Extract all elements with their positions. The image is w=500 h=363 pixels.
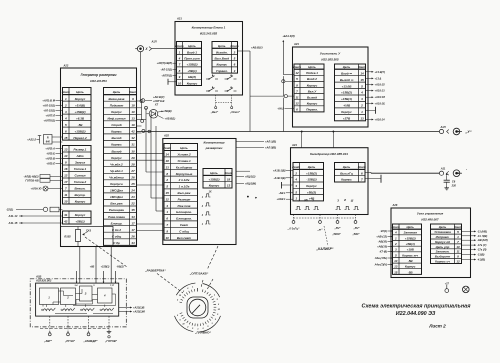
svg-text:„АВТ“: „АВТ“ — [43, 339, 53, 343]
A28 right connector table — [431, 224, 463, 264]
svg-text:Подсвет: Подсвет — [110, 103, 124, 107]
net A31-15 — [8, 221, 63, 225]
svg-text:-13(В): -13(В) — [477, 253, 484, 257]
coax connector calibrator output — [439, 167, 467, 177]
svg-text:Вкл.свет: Вкл.свет — [177, 236, 192, 240]
svg-text:5: 5 — [179, 320, 181, 322]
svg-text:+АР(У)1В(Л): +АР(У)1В(Л) — [157, 61, 173, 65]
net -АН:2 label — [277, 107, 294, 111]
svg-text:АВт: АВт — [75, 154, 83, 158]
svg-text:+АЛ-15(1): +АЛ-15(1) — [42, 103, 55, 107]
svg-text:Цепь: Цепь — [308, 65, 316, 69]
svg-text:3: 3 — [65, 110, 67, 114]
svg-text:+5В(1): +5В(1) — [75, 220, 84, 224]
A22 right connector table X2 — [104, 88, 138, 246]
svg-text:Вых.Вход: Вых.Вход — [214, 57, 229, 61]
svg-text:5: 5 — [183, 291, 185, 293]
svg-text:640: 640 — [46, 141, 51, 144]
svg-text:9: 9 — [457, 255, 459, 259]
svg-text:7: 7 — [166, 223, 168, 227]
svg-text:Выход: Выход — [307, 96, 317, 100]
svg-text:15: 15 — [166, 191, 170, 195]
svg-text:1: 1 — [166, 210, 168, 214]
svg-text:8: 8 — [179, 69, 181, 73]
net A31-13 — [8, 214, 63, 218]
svg-text:Корпус: Корпус — [75, 97, 86, 101]
title Схема электрическая принципиальная — [362, 304, 472, 329]
ground tick at A23 Корпус pin — [366, 107, 376, 114]
svg-text:„⊓ 1кГц“: „⊓ 1кГц“ — [287, 227, 300, 231]
svg-text:Вых.кГц: Вых.кГц — [340, 171, 353, 175]
svg-text:Запуск: Запуск — [75, 161, 86, 165]
svg-text:1: 1 — [48, 296, 50, 300]
A24 right connector table — [335, 163, 367, 183]
svg-text:26: 26 — [130, 176, 135, 180]
A24 left connector table — [292, 163, 323, 201]
svg-text:10: 10 — [131, 110, 135, 114]
svg-text:„m“: „m“ — [316, 228, 323, 232]
svg-text:+АЛ7:Л: +АЛ7:Л — [45, 113, 55, 117]
svg-text:Корпус: Корпус — [111, 143, 122, 147]
svg-text:А4в-(17Б): А4в-(17Б) — [374, 256, 387, 260]
svg-text:9: 9 — [132, 97, 134, 101]
label РАЗВЕРТКА — [144, 268, 166, 272]
net labels right of A28 — [462, 229, 488, 261]
svg-text:-5В: -5В — [408, 259, 414, 263]
svg-text:10: 10 — [166, 236, 170, 240]
svg-text:2 п.1/2к: 2 п.1/2к — [178, 178, 190, 182]
svg-text:11: 11 — [295, 96, 298, 100]
svg-text:14: 14 — [360, 71, 364, 75]
svg-text:Исправл.: Исправл. — [436, 235, 450, 239]
svg-text:9: 9 — [166, 229, 168, 233]
svg-text:Корпус: Корпус — [75, 213, 86, 217]
svg-text:44: 44 — [130, 241, 135, 245]
switch wafer contact arcs — [41, 305, 113, 311]
svg-text:10: 10 — [178, 81, 182, 85]
block A21 Коммутатор Блока 1 outline — [175, 17, 243, 96]
svg-text:15: 15 — [360, 78, 364, 82]
svg-text:+БА1.3(Л): +БА1.3(Л) — [282, 34, 294, 38]
svg-text:А1Л: А1Л — [150, 40, 156, 44]
svg-text:„ВЧ“: „ВЧ“ — [352, 227, 360, 230]
svg-text:Генератор развертки: Генератор развертки — [81, 73, 117, 77]
svg-text:+А22:2: +А22:2 — [27, 138, 36, 142]
svg-text:1: 1 — [457, 235, 459, 239]
A21 relay contacts K1 — [206, 74, 237, 79]
svg-text:-13. 5(В): -13. 5(В) — [477, 234, 487, 238]
svg-text:НВ(2): НВ(2) — [188, 75, 196, 79]
wire bundle A22-A25 — [137, 101, 165, 231]
svg-text:2: 2 — [64, 103, 67, 107]
svg-text:И22.2И.053: И22.2И.053 — [90, 79, 107, 83]
svg-text:29: 29 — [130, 156, 135, 160]
svg-text:Корпус: Корпус — [341, 110, 352, 114]
svg-text:Х: Х — [144, 47, 148, 51]
svg-text:17: 17 — [131, 221, 135, 225]
svg-text:Конт: Конт — [224, 171, 232, 175]
svg-text:3: 3 — [234, 69, 236, 73]
svg-text:+АВ(10): +АВ(10) — [377, 245, 387, 249]
svg-text:Корпус тч: Корпус тч — [402, 253, 418, 257]
svg-text:И22.044.090 ЭЗ: И22.044.090 ЭЗ — [396, 311, 436, 317]
svg-text:1: 1 — [202, 224, 204, 226]
svg-text:+15В(2): +15В(2) — [405, 236, 416, 240]
svg-text:-АЛ-15(1): -АЛ-15(1) — [160, 67, 172, 71]
svg-text:„КАЛИБР“: „КАЛИБР“ — [316, 247, 334, 251]
svg-text:R: R — [47, 137, 49, 140]
resistor R105 subcircuit — [61, 227, 114, 247]
svg-text:„РУЧН“: „РУЧН“ — [64, 339, 76, 343]
svg-text:Х7: Х7 — [154, 103, 159, 107]
svg-text:7,17: 7,17 — [110, 285, 115, 287]
net labels left of A24 — [273, 168, 293, 201]
svg-text:32: 32 — [131, 136, 135, 140]
svg-text:Подсв.1: Подсв.1 — [306, 71, 318, 75]
svg-text:Строб: Строб — [111, 123, 121, 127]
svg-text:+5.6(В): +5.6(В) — [75, 103, 85, 107]
svg-text:1МС/Дел: 1МС/Дел — [110, 189, 123, 193]
svg-text:-АВ(10): -АВ(10) — [378, 240, 387, 244]
svg-text:+СИГН.В: +СИГН.В — [153, 99, 164, 103]
svg-text:+А22(1)М: +А22(1)М — [133, 310, 145, 314]
svg-text:+13 Δ: +13 Δ — [375, 76, 382, 80]
svg-text:12: 12 — [295, 71, 299, 75]
svg-text:Внутр.: Внутр. — [75, 193, 86, 197]
net labels left of A21 — [157, 61, 177, 77]
svg-text:-V2(1): -V2(1) — [380, 229, 387, 233]
ground at switch output — [107, 330, 112, 338]
svg-text:+15В(2): +15В(2) — [75, 129, 86, 133]
A21 lower linkage to Вкл/Откл — [210, 95, 241, 114]
junction node wires left of A23 — [282, 76, 294, 131]
svg-text:развертки: развертки — [205, 146, 223, 150]
svg-text:Корпус: Корпус — [307, 102, 318, 106]
svg-text:Узел управления: Узел управления — [417, 212, 444, 216]
svg-text:Корпус: Корпус — [405, 265, 416, 269]
svg-text:2: 2 — [217, 304, 220, 306]
svg-text:1 п.1/2к: 1 п.1/2к — [179, 185, 190, 189]
svg-text:Инф.сигнал: Инф.сигнал — [108, 117, 126, 121]
svg-text:2: 2 — [201, 206, 204, 208]
svg-text:+27: +27 — [445, 282, 450, 285]
svg-text:1: 1 — [192, 286, 193, 288]
svg-text:4: 4 — [64, 116, 67, 120]
svg-text:Цепь: Цепь — [180, 146, 188, 150]
net labels +АЛ right of A25 top — [236, 140, 276, 150]
svg-text:Блокиров.: Блокиров. — [176, 210, 192, 214]
svg-text:Размерн: Размерн — [178, 197, 191, 201]
svg-text:Цепь: Цепь — [439, 225, 447, 229]
svg-text:+А19:1Б: +А19:1Б — [375, 101, 386, 105]
svg-text:2: 2 — [186, 288, 189, 290]
svg-text:2: 2 — [66, 296, 69, 300]
svg-text:А21: А21 — [176, 17, 182, 21]
svg-text:7: 7 — [296, 89, 298, 93]
svg-text:15: 15 — [64, 136, 68, 140]
svg-text:-17а (Л): -17а (Л) — [477, 247, 487, 251]
svg-text:25: 25 — [130, 182, 135, 186]
svg-text:13: 13 — [166, 165, 170, 169]
svg-text:И22.055.505: И22.055.505 — [321, 57, 339, 61]
svg-text:+15В(2): +15В(2) — [209, 177, 220, 181]
test point +27 — [445, 282, 450, 292]
svg-text:9: 9 — [296, 83, 298, 87]
svg-text:3: 3 — [361, 97, 363, 101]
svg-text:+А22(1)В: +А22(1)В — [133, 306, 144, 310]
svg-text:А11: А11 — [440, 167, 446, 171]
svg-text:-А1В:1(В): -А1В:1(В) — [273, 176, 285, 180]
svg-text:6: 6 — [361, 171, 363, 175]
svg-text:Установка: Установка — [434, 230, 451, 234]
svg-text:1: 1 — [295, 197, 297, 201]
svg-text:Выход: Выход — [111, 136, 121, 140]
svg-text:+АЛ:5(В): +АЛ:5(В) — [265, 146, 276, 150]
svg-text:„ЗАМЕДЛ“: „ЗАМЕДЛ“ — [82, 339, 98, 343]
svg-text:Корпус об: Корпус об — [435, 240, 450, 244]
svg-text:220: 220 — [451, 183, 457, 187]
power feeds into switch assembly — [76, 247, 116, 284]
switch wafer S1 — [40, 288, 59, 305]
svg-text:„Вкл“: „Вкл“ — [210, 110, 219, 114]
power feed labels — [75, 265, 124, 287]
svg-text:Корпусн: Корпусн — [110, 182, 123, 186]
svg-text:4: 4 — [394, 231, 397, 235]
svg-text:+КЦ/1(М): +КЦ/1(М) — [245, 181, 256, 185]
svg-text:И22.480.007: И22.480.007 — [421, 217, 439, 221]
svg-text:5: 5 — [234, 57, 236, 61]
A22 left connector table rows 41-42 — [63, 211, 92, 224]
svg-text:17: 17 — [64, 180, 68, 184]
vertical feeds into calibrator — [301, 131, 334, 148]
svg-text:Цепь упр: Цепь упр — [436, 245, 450, 249]
switch internal routing wires — [43, 289, 116, 314]
svg-text:10: 10 — [64, 200, 68, 204]
net labels right of A23 — [366, 70, 386, 122]
svg-text:+КЦ/1(2): +КЦ/1(2) — [245, 175, 255, 179]
svg-text:1: 1 — [65, 97, 67, 101]
svg-text:+АЕ:В(У): +АЕ:В(У) — [153, 95, 164, 99]
svg-text:А1Л: А1Л — [439, 125, 445, 129]
svg-text:Вкл.реж: Вкл.реж — [110, 202, 123, 206]
net labels left of A22 (middle group) — [45, 147, 62, 166]
svg-text:-НВ (НЛ): -НВ (НЛ) — [477, 238, 488, 242]
svg-text:23: 23 — [130, 195, 135, 199]
svg-text:Корпус: Корпус — [187, 81, 198, 85]
svg-text:12: 12 — [64, 174, 68, 178]
junction circles A22-A25 bundle — [140, 100, 151, 133]
switch wafer S3 — [80, 286, 93, 301]
svg-text:+А19:1Л: +А19:1Л — [375, 95, 386, 99]
svg-text:16: 16 — [64, 167, 68, 171]
svg-text:Цепь: Цепь — [188, 44, 196, 48]
svg-text:-4.2(В): -4.2(В) — [477, 258, 485, 262]
svg-text:3: 3 — [295, 184, 297, 188]
svg-text:-22(1): -22(1) — [6, 207, 13, 211]
svg-text:Выход: Выход — [111, 149, 121, 153]
net labels left of A22 (top group) — [42, 98, 62, 122]
coax connector X1 input — [135, 40, 176, 52]
svg-text:Развер.1: Развер.1 — [74, 148, 87, 152]
svg-text:Запомин.: Запомин. — [436, 250, 450, 254]
svg-text:19: 19 — [131, 123, 135, 127]
rotary switch knob — [187, 297, 208, 318]
svg-text:Исходн.: Исходн. — [216, 50, 228, 54]
svg-text:11: 11 — [456, 250, 459, 254]
wire long line to У connector — [137, 131, 440, 133]
label ОПТ/ЗАХВ — [189, 271, 209, 275]
svg-text:Цепь: Цепь — [218, 44, 226, 48]
zener VD1 with resistor R640 — [27, 135, 62, 145]
svg-text:А19.820.002: А19.820.002 — [35, 278, 52, 282]
svg-text:Выход ⎓: Выход ⎓ — [340, 78, 354, 82]
svg-text:Условн.1: Условн.1 — [177, 159, 191, 163]
svg-text:41: 41 — [63, 213, 68, 217]
svg-text:+6В: +6В — [90, 265, 95, 268]
svg-text:5: 5 — [207, 326, 209, 328]
svg-text:Разв.плавн: Разв.плавн — [108, 215, 125, 219]
A22 left connector table X1 — [62, 88, 91, 141]
svg-text:8: 8 — [166, 172, 168, 176]
svg-text:4: 4 — [103, 293, 106, 297]
svg-text:С общ: С общ — [179, 229, 189, 233]
svg-text:Блокир.: Блокир. — [111, 221, 123, 225]
A24 waveform symbols group 2 — [336, 199, 359, 210]
svg-text:Усилитель У: Усилитель У — [320, 51, 341, 55]
svg-text:Конт: Конт — [230, 44, 238, 48]
svg-text:3,4: 3,4 — [75, 284, 79, 287]
svg-text:Коммутатор Блока 1: Коммутатор Блока 1 — [192, 25, 226, 29]
svg-text:+АЛ2:А: +АЛ2:А — [45, 147, 55, 151]
svg-text:2: 2 — [214, 319, 217, 321]
svg-text:Коммутатор: Коммутатор — [204, 141, 225, 145]
switch wafer S2 — [61, 288, 76, 305]
svg-text:Цепь: Цепь — [308, 165, 316, 169]
svg-text:Корпус: Корпус — [75, 200, 86, 204]
svg-text:А24: А24 — [291, 143, 297, 147]
svg-text:-5В: -5В — [408, 270, 414, 274]
svg-text:С 8р: С 8р — [113, 241, 120, 245]
svg-text:9: 9 — [179, 75, 181, 79]
svg-text:Корпус: Корпус — [111, 156, 122, 160]
svg-text:42: 42 — [130, 130, 135, 134]
svg-text:6: 6 — [166, 217, 168, 221]
svg-text:Конт: Конт — [358, 165, 366, 169]
svg-text:4: 4 — [165, 204, 168, 208]
svg-text:13: 13 — [227, 184, 231, 188]
svg-text:+АЛ2:В: +АЛ2:В — [45, 157, 55, 161]
svg-text:+АЛ:Н.Ю: +АЛ:Н.Ю — [31, 188, 42, 191]
svg-text:А28: А28 — [392, 203, 398, 207]
net +БА1.3(Л) feed — [282, 34, 294, 75]
A23 right connector table — [335, 64, 367, 121]
svg-text:Чк.вбл.2: Чк.вбл.2 — [110, 162, 123, 166]
svg-text:+А1В:1(В): +А1В:1(В) — [273, 168, 286, 172]
svg-text:’: ’ — [466, 169, 467, 173]
svg-text:1: 1 — [395, 236, 397, 240]
svg-text:14: 14 — [394, 259, 398, 263]
svg-text:+А16:14: +А16:14 — [375, 118, 386, 122]
svg-text:27: 27 — [130, 169, 135, 173]
net labels right of A25 — [236, 175, 256, 186]
svg-text:-АЛ2:Е: -АЛ2:Е — [46, 162, 55, 166]
svg-text:-АН:2: -АН:2 — [277, 107, 285, 111]
svg-text:Корпус: Корпус — [217, 63, 228, 67]
svg-text:2: 2 — [176, 315, 179, 317]
svg-text:5: 5 — [166, 185, 168, 189]
svg-text:6: 6 — [296, 108, 298, 112]
svg-text:12: 12 — [166, 197, 170, 201]
junction A25 to +15 bus — [236, 171, 257, 198]
svg-text:ГОТОВ-НВ: ГОТОВ-НВ — [25, 180, 38, 183]
svg-text:5: 5 — [65, 123, 67, 127]
svg-text:10: 10 — [182, 323, 185, 325]
svg-text:Чр.вбл.1: Чр.вбл.1 — [110, 169, 123, 173]
svg-text:5: 5 — [457, 230, 459, 234]
svg-text:А23: А23 — [293, 42, 299, 46]
svg-text:2: 2 — [360, 104, 363, 108]
svg-text:+6.3В: +6.3В — [76, 116, 85, 120]
svg-text:35: 35 — [131, 208, 135, 212]
svg-text:1Х: 1Х — [208, 191, 211, 194]
svg-text:„ПЛАВНО“: „ПЛАВНО“ — [194, 331, 212, 335]
svg-text:+5В(В): +5В(В) — [163, 109, 172, 113]
svg-text:+АВ:В(У): +АВ:В(У) — [251, 45, 263, 49]
svg-text:5: 5 — [395, 253, 397, 257]
svg-text:-АЛ70(1): -АЛ70(1) — [161, 74, 172, 78]
terminal labels — [287, 227, 361, 236]
svg-text:Цепь: Цепь — [210, 171, 218, 175]
A23 left connector table — [293, 64, 324, 112]
wire long line to calibrator connector — [366, 171, 440, 174]
svg-text:Конт: Конт — [454, 225, 462, 229]
svg-text:А1В: А1В — [35, 275, 41, 279]
svg-text:2: 2 — [294, 171, 297, 175]
label КАЛИБР — [316, 226, 334, 251]
svg-text:-АЛ(5)-НВ(2): -АЛ(5)-НВ(2) — [23, 176, 38, 179]
svg-text:+А5:В(1): +А5:В(1) — [165, 117, 176, 121]
svg-text:Схема электрическая принципи: Схема электрическая принципиальная — [362, 304, 472, 310]
A22 left connector table X1 lower part — [63, 146, 92, 205]
svg-text:Ш: Ш — [351, 200, 354, 203]
A24 waveform symbols group 1 — [296, 199, 319, 210]
svg-text:+13.0В: +13.0В — [342, 84, 353, 88]
svg-text:Чк.вблнш: Чк.вблнш — [109, 176, 124, 180]
svg-text:Реж.тлв: Реж.тлв — [178, 204, 191, 208]
svg-text:6: 6 — [65, 129, 67, 133]
svg-text:30: 30 — [131, 149, 135, 153]
svg-text:24: 24 — [130, 189, 135, 193]
rotary switch outer arcs — [175, 283, 221, 332]
svg-text:2: 2 — [233, 50, 236, 54]
svg-text:2: 2 — [165, 178, 168, 182]
svg-text:Цепь: Цепь — [343, 165, 351, 169]
svg-text:Проп.сигн: Проп.сигн — [184, 57, 200, 61]
svg-text:13: 13 — [394, 265, 398, 269]
svg-text:Расширен: Расширен — [109, 208, 124, 212]
switch wafer S4 — [98, 288, 113, 303]
svg-text:4: 4 — [201, 214, 204, 217]
svg-text:+АЛ:1(В): +АЛ:1(В) — [265, 140, 276, 144]
svg-text:+27В: +27В — [343, 117, 351, 121]
capacitor C6 to ground — [444, 174, 457, 190]
svg-text:Лист 2: Лист 2 — [428, 323, 446, 328]
svg-text:З: З — [85, 291, 87, 295]
svg-text:+5В(1): +5В(1) — [187, 69, 196, 73]
svg-text:+15В(2): +15В(2) — [187, 63, 198, 67]
svg-text:-НВ(2): -НВ(2) — [116, 265, 123, 268]
svg-text:5: 5 — [217, 299, 219, 301]
